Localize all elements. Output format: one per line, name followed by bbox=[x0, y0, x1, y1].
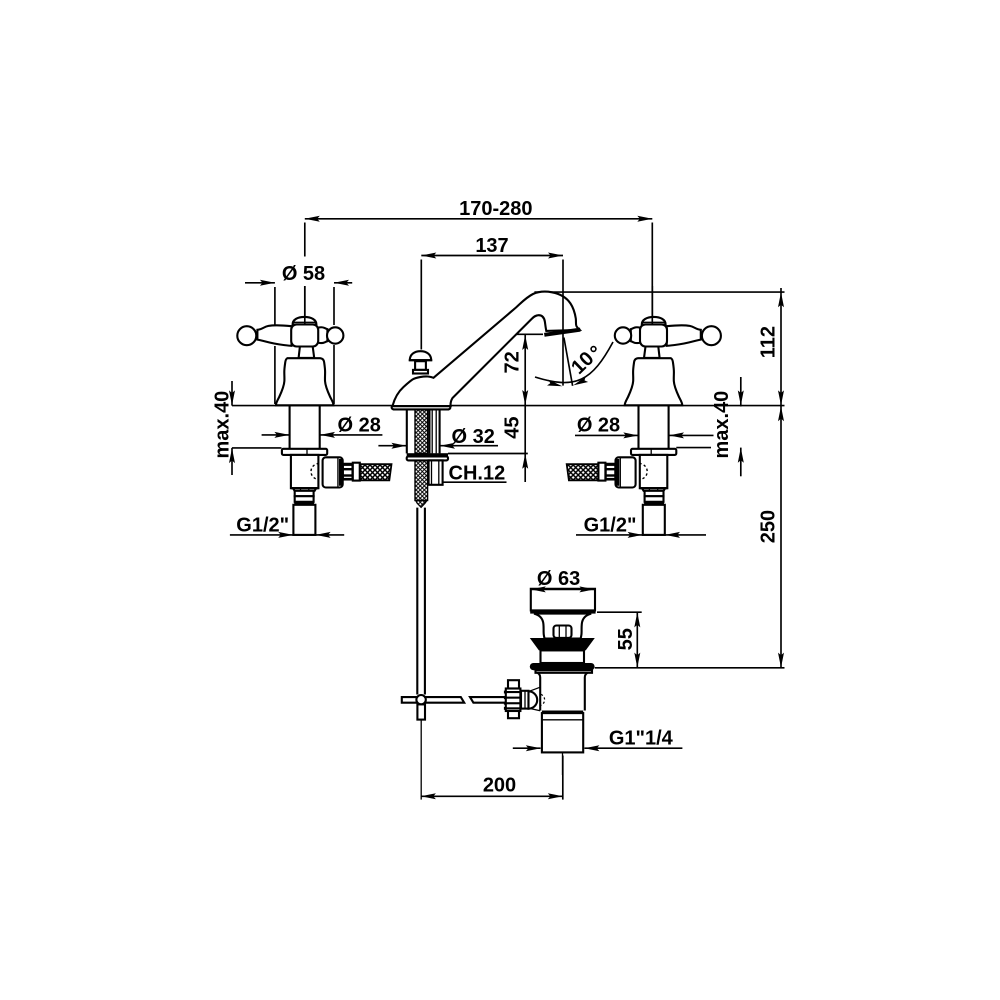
dimension D28 left bbox=[262, 415, 383, 438]
dimension 45 bbox=[448, 406, 528, 482]
dimension G1/2 left bbox=[230, 515, 344, 538]
dimension 170-280 bbox=[305, 198, 653, 323]
tail shoulder bbox=[542, 711, 583, 714]
pop-up knob bbox=[410, 351, 431, 360]
dimension 112 bbox=[534, 288, 784, 406]
dimension max.40 left bbox=[212, 381, 236, 475]
svg-text:Ø 28: Ø 28 bbox=[577, 415, 620, 437]
svg-text:170-280: 170-280 bbox=[459, 198, 532, 220]
label CH.12 bbox=[433, 463, 507, 485]
pivot ball dome bbox=[529, 691, 538, 708]
right valve with cross handle (mirrored) bbox=[567, 317, 721, 535]
drain upper body bbox=[541, 650, 585, 663]
dimension G1 1/4 bbox=[513, 727, 683, 751]
drain centerline bbox=[562, 752, 564, 775]
knurled lever nut bbox=[508, 680, 519, 688]
svg-text:200: 200 bbox=[483, 774, 516, 796]
svg-text:45: 45 bbox=[502, 416, 524, 438]
dimension D63 bbox=[531, 568, 595, 592]
horizontal actuating rod bbox=[402, 697, 464, 703]
clevis bbox=[521, 691, 529, 709]
handle centerline right bbox=[651, 286, 653, 324]
washer under o-ring bbox=[536, 670, 593, 673]
drain boss shoulder bbox=[530, 687, 541, 691]
shank flange bbox=[407, 453, 448, 456]
flange-top extension left bbox=[232, 447, 282, 449]
drain lift knob bbox=[554, 626, 572, 638]
dimension 200 bbox=[421, 756, 563, 800]
dimension max.40 right bbox=[676, 377, 744, 476]
rod pivot bbox=[416, 695, 425, 704]
svg-text:137: 137 bbox=[475, 235, 508, 257]
dimension D28 right bbox=[575, 415, 714, 439]
o-ring seal bbox=[530, 663, 595, 670]
threaded shank upper bbox=[415, 409, 428, 453]
spout body bbox=[392, 292, 581, 508]
svg-text:250: 250 bbox=[758, 510, 780, 543]
plug seal (black cone) bbox=[530, 638, 595, 650]
tail pipe G1 1/4 bbox=[542, 713, 583, 752]
dimension 72 bbox=[502, 334, 544, 405]
aerator outlet bbox=[544, 330, 580, 335]
deck line bbox=[232, 405, 785, 407]
threaded shank lower bbox=[415, 460, 428, 500]
dimension G1/2 right bbox=[576, 515, 706, 538]
dimension 10 degrees bbox=[535, 338, 613, 390]
svg-text:112: 112 bbox=[758, 326, 780, 358]
svg-text:max.40: max.40 bbox=[212, 391, 234, 459]
svg-text:Ø 63: Ø 63 bbox=[537, 568, 580, 590]
spout body and base outline bbox=[393, 292, 580, 406]
svg-text:Ø 32: Ø 32 bbox=[452, 426, 495, 448]
svg-text:Ø 28: Ø 28 bbox=[338, 415, 381, 437]
svg-text:55: 55 bbox=[615, 628, 637, 650]
handle centerline left bbox=[304, 286, 306, 324]
svg-text:CH.12: CH.12 bbox=[449, 463, 506, 485]
drain neck bbox=[534, 614, 591, 639]
svg-text:G1/2": G1/2" bbox=[236, 515, 289, 537]
dimension D58 bbox=[245, 263, 352, 404]
dimension 250 bbox=[595, 406, 785, 668]
drain top flange D63 bbox=[531, 589, 595, 611]
pop-up rod bbox=[402, 508, 506, 800]
dimension 55 bbox=[597, 612, 642, 668]
dimension D32 bbox=[378, 426, 498, 449]
left valve with cross handle bbox=[237, 317, 391, 535]
extension line through spout outlet bbox=[562, 260, 564, 386]
svg-text:Ø 58: Ø 58 bbox=[282, 263, 325, 285]
drain assembly bbox=[504, 589, 596, 775]
drain lower body bbox=[538, 673, 588, 711]
base rim bbox=[392, 406, 451, 409]
svg-text:G1/2": G1/2" bbox=[584, 515, 637, 537]
dimension 137 bbox=[421, 235, 563, 350]
svg-text:G1"1/4: G1"1/4 bbox=[609, 727, 674, 749]
retaining nut CH12 bbox=[429, 460, 443, 484]
svg-text:72: 72 bbox=[502, 351, 524, 373]
svg-text:max.40: max.40 bbox=[711, 391, 733, 459]
shank outer tube D32 bbox=[406, 409, 408, 453]
